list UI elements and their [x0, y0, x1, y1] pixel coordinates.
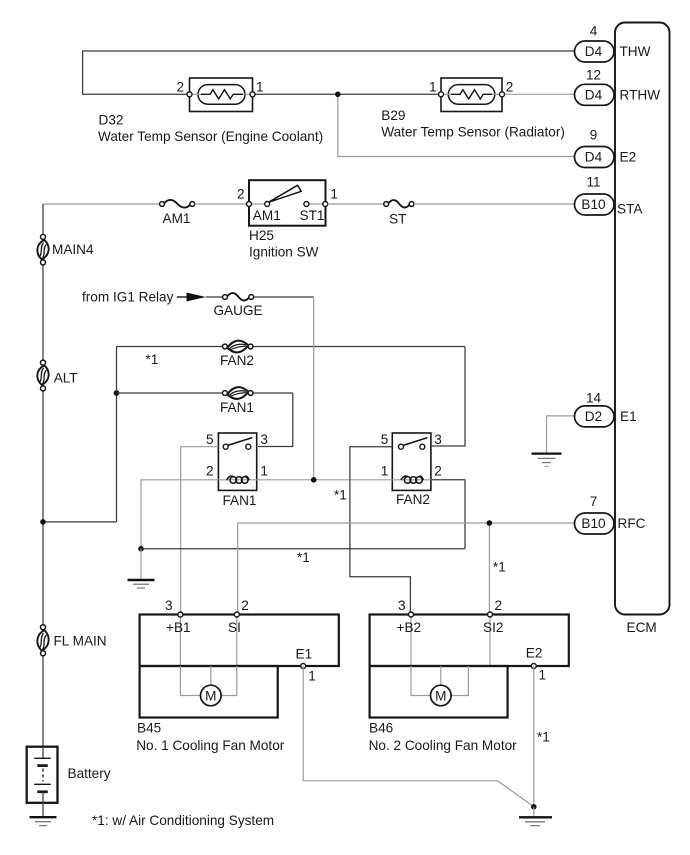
svg-text:No. 1 Cooling Fan Motor: No. 1 Cooling Fan Motor	[136, 738, 285, 753]
wire AM1 to H25	[195, 203, 248, 205]
fuse AM1	[160, 200, 195, 226]
svg-text:E1: E1	[620, 409, 637, 424]
svg-text:FAN2: FAN2	[396, 492, 430, 507]
svg-text:D32: D32	[99, 113, 124, 128]
svg-text:2: 2	[495, 598, 503, 613]
svg-text:Ignition SW: Ignition SW	[249, 245, 319, 260]
svg-text:1: 1	[381, 464, 389, 479]
node on main vertical	[40, 519, 46, 525]
svg-text:AM1: AM1	[253, 208, 281, 223]
svg-text:THW: THW	[620, 44, 651, 59]
svg-text:B10: B10	[581, 516, 606, 531]
svg-text:7: 7	[590, 494, 598, 509]
wire FAN1 fuse riser to relay pin3	[258, 393, 293, 447]
ground bottom right ground	[519, 807, 552, 826]
svg-text:STA: STA	[617, 202, 643, 217]
svg-text:2: 2	[241, 598, 249, 613]
svg-text:+B2: +B2	[397, 620, 422, 635]
svg-text:*1: *1	[493, 559, 506, 574]
water temp sensor D32	[98, 78, 323, 144]
wire FAN1 fuse row	[117, 392, 223, 394]
fuse GAUGE	[213, 293, 262, 318]
svg-text:2: 2	[206, 464, 214, 479]
fuse FAN2	[220, 341, 254, 368]
wire E2 from junction to ECM	[338, 94, 574, 156]
node RFC junction	[487, 520, 493, 526]
fusible link MAIN4	[37, 234, 94, 265]
wire ST to STA	[414, 203, 574, 205]
svg-text:5: 5	[381, 432, 389, 447]
wire FAN1 pin5 to +B1	[181, 447, 219, 615]
wire FAN2 fuse row	[117, 346, 223, 348]
svg-text:1: 1	[429, 79, 437, 94]
svg-text:FAN1: FAN1	[223, 493, 257, 508]
svg-text:M: M	[205, 689, 216, 704]
svg-text:*1: *1	[146, 352, 159, 367]
svg-text:SI: SI	[228, 620, 241, 635]
battery	[27, 747, 111, 817]
svg-text:Water Temp Sensor (Engine Cool: Water Temp Sensor (Engine Coolant)	[98, 129, 323, 144]
svg-text:2: 2	[506, 79, 514, 94]
fusible link FL MAIN	[37, 625, 106, 656]
cooling fan motor B46	[369, 598, 569, 753]
node junction sensor row	[335, 92, 341, 98]
wire E1 bottom route to ground	[303, 666, 534, 807]
wire FAN2 fuse riser to relay pin3	[432, 347, 465, 447]
svg-text:*1: *1	[334, 488, 347, 503]
svg-text:2: 2	[434, 464, 442, 479]
svg-text:ST: ST	[389, 211, 406, 226]
fusible link ALT	[37, 360, 77, 391]
wire B29 pin2 to RTHW	[504, 93, 574, 95]
ground E1 ground	[532, 454, 562, 467]
wire RFC drop to SI2	[488, 523, 490, 615]
wire THW loop from ECM to D32	[83, 51, 574, 94]
wire arrow to GAUGE fuse	[206, 296, 223, 298]
svg-text:E2: E2	[620, 150, 637, 165]
svg-text:MAIN4: MAIN4	[52, 242, 94, 257]
arrow	[177, 296, 187, 298]
ECM box	[615, 23, 670, 615]
svg-text:4: 4	[590, 24, 598, 39]
svg-text:Water Temp Sensor (Radiator): Water Temp Sensor (Radiator)	[381, 124, 565, 139]
connector B10 pin11 STA	[575, 175, 644, 217]
svg-text:No. 2 Cooling Fan Motor: No. 2 Cooling Fan Motor	[369, 738, 518, 753]
node ground junction	[138, 546, 144, 552]
svg-text:D4: D4	[585, 44, 603, 59]
wire riser x116.5	[116, 347, 118, 522]
wire left jumper row	[43, 521, 117, 523]
svg-text:*1: w/ Air Conditioning System: *1: w/ Air Conditioning System	[92, 813, 274, 828]
ground battery ground	[30, 817, 57, 825]
node FAN1 row junction	[114, 390, 120, 396]
svg-text:+B1: +B1	[166, 620, 191, 635]
wire GAUGE riser down to coil row	[313, 297, 315, 479]
svg-text:3: 3	[434, 432, 442, 447]
svg-text:M: M	[435, 689, 446, 704]
svg-text:2: 2	[176, 79, 184, 94]
fuse FAN1	[220, 387, 254, 415]
svg-text:AM1: AM1	[163, 211, 191, 226]
svg-text:D2: D2	[585, 409, 602, 424]
wire RFC row	[238, 523, 574, 615]
svg-text:RFC: RFC	[618, 516, 646, 531]
svg-text:FAN2: FAN2	[220, 353, 254, 368]
svg-text:1: 1	[260, 464, 268, 479]
svg-text:from IG1 Relay: from IG1 Relay	[82, 289, 174, 304]
fuse ST	[384, 200, 414, 226]
wire H25 to ST fuse	[328, 203, 384, 205]
svg-text:ST1: ST1	[300, 208, 325, 223]
svg-text:E2: E2	[526, 646, 543, 661]
connector D2 pin14 E1	[575, 391, 637, 427]
svg-text:D4: D4	[585, 87, 603, 102]
svg-text:FL MAIN: FL MAIN	[54, 634, 107, 649]
water temp sensor B29	[381, 78, 565, 139]
connector B10 pin7 RFC	[575, 494, 646, 534]
svg-text:E1: E1	[296, 647, 313, 662]
svg-text:3: 3	[398, 598, 406, 613]
wire FAN2 pin2 drop	[431, 480, 465, 549]
svg-text:1: 1	[539, 668, 547, 683]
relay FAN2	[381, 432, 442, 507]
svg-text:1: 1	[256, 79, 264, 94]
svg-text:9: 9	[590, 128, 598, 143]
connector D4 pin4 THW	[575, 24, 651, 63]
svg-text:SI2: SI2	[483, 620, 503, 635]
wire FAN1 pin2 to ground	[141, 480, 218, 549]
svg-text:11: 11	[586, 175, 600, 190]
wire coil row between relays	[257, 479, 393, 481]
svg-text:B29: B29	[381, 108, 405, 123]
wire FAN2 pin5 to +B2	[350, 447, 411, 615]
svg-text:ALT: ALT	[54, 371, 78, 386]
wire *1 ground row	[141, 548, 465, 550]
connector D4 pin9 E2	[575, 128, 637, 168]
wire E1 connector to ground	[547, 416, 575, 454]
ground relay ground	[128, 549, 155, 588]
wire E2 drop to ground	[533, 666, 535, 807]
svg-text:1: 1	[330, 187, 338, 202]
svg-text:B46: B46	[369, 721, 393, 736]
wire D32 pin1 to B29 pin1	[255, 93, 439, 95]
wire ignition row	[43, 203, 160, 205]
svg-text:3: 3	[260, 432, 268, 447]
wire GAUGE to riser	[254, 296, 314, 298]
svg-text:3: 3	[165, 598, 173, 613]
svg-text:H25: H25	[249, 228, 274, 243]
svg-text:14: 14	[586, 391, 602, 406]
svg-text:FAN1: FAN1	[220, 400, 254, 415]
svg-text:GAUGE: GAUGE	[213, 303, 262, 318]
svg-text:5: 5	[206, 432, 214, 447]
svg-text:D4: D4	[585, 150, 603, 165]
node GAUGE junction on coil row	[311, 477, 317, 483]
ignition switch H25	[237, 180, 338, 259]
connector D4 pin12 RTHW	[575, 68, 661, 106]
node bottom ground junction	[531, 804, 537, 810]
relay FAN1	[206, 432, 268, 508]
svg-text:B45: B45	[137, 721, 161, 736]
svg-text:12: 12	[586, 68, 601, 83]
svg-text:2: 2	[237, 187, 245, 202]
cooling fan motor B45	[136, 598, 339, 753]
svg-text:ECM: ECM	[627, 620, 657, 635]
svg-text:*1: *1	[537, 730, 550, 745]
svg-text:1: 1	[308, 668, 316, 683]
svg-text:B10: B10	[581, 197, 606, 212]
svg-text:RTHW: RTHW	[620, 87, 661, 102]
svg-text:Battery: Battery	[68, 766, 111, 781]
left main vertical wire	[42, 204, 44, 235]
svg-text:*1: *1	[297, 550, 310, 565]
